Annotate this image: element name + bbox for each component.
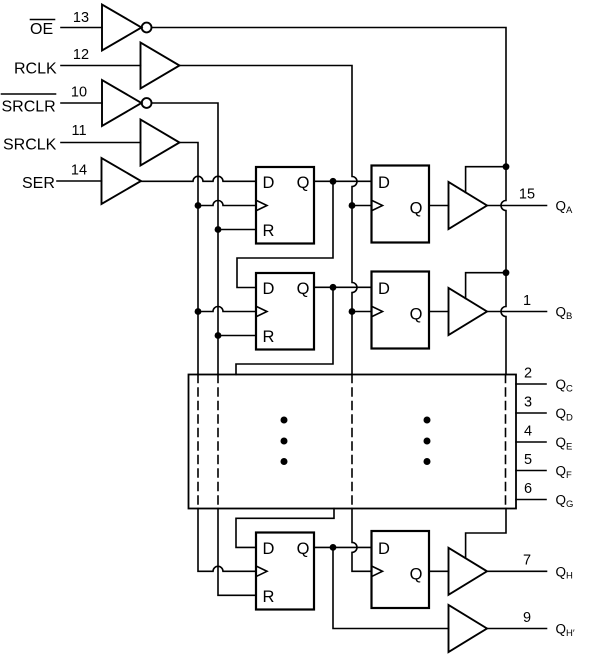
svg-text:9: 9 (523, 610, 531, 626)
wire Q2 to D of FF2B (314, 284, 372, 291)
svg-text:2: 2 (524, 366, 532, 382)
svg-text:H: H (566, 571, 573, 582)
buffer U2 (RCLK) (141, 43, 180, 89)
wire Q1 to D of FF2A (314, 178, 372, 185)
svg-text:11: 11 (71, 123, 86, 139)
svg-text:SRCLR: SRCLR (2, 99, 56, 116)
svg-text:Q: Q (556, 464, 567, 479)
wire OE enable branch B (466, 269, 510, 298)
wire R branch row B (215, 332, 256, 339)
dashed bus RCLK through box (351, 375, 353, 509)
wire QD output pin 3 (516, 412, 546, 414)
wire QE output pin 4 (516, 441, 546, 443)
label QA (556, 199, 574, 216)
label QH (556, 564, 574, 581)
svg-text:F: F (566, 470, 572, 481)
svg-text:SER: SER (22, 175, 55, 192)
wire Q latch H to buffer (429, 570, 449, 572)
wire Q of FF1H to D of FF2H (314, 544, 372, 551)
wire SER to D of FF A with hops (141, 176, 256, 181)
wire QC output pin 2 (516, 383, 546, 385)
wire R branch row A (215, 226, 256, 233)
flip-flop FF2B (output latch B) (372, 272, 430, 349)
svg-text:D: D (378, 280, 390, 298)
wire clock branch row B with hop (195, 307, 256, 315)
svg-text:D: D (378, 174, 390, 192)
wire RCLK net below box to bottom clock (352, 509, 372, 572)
inverter U1 (OE) (102, 5, 152, 51)
wire QA output (487, 205, 547, 207)
svg-text:B: B (566, 311, 572, 322)
svg-text:C: C (566, 383, 573, 394)
buffer U9 (QH' serial output) (449, 605, 488, 652)
svg-text:Q: Q (410, 200, 423, 218)
svg-text:H′: H′ (566, 628, 575, 639)
wire chain A to B (237, 181, 333, 287)
svg-text:R: R (263, 588, 275, 606)
dashed bus OE through box (505, 375, 507, 509)
svg-text:Q: Q (556, 199, 567, 214)
inverter U3 (SRCLR) (102, 80, 152, 126)
svg-text:Q: Q (556, 493, 567, 508)
svg-text:7: 7 (523, 552, 531, 568)
svg-text:E: E (566, 441, 572, 452)
buffer U6 (QA output) (449, 182, 488, 229)
svg-text:Q: Q (410, 306, 423, 324)
wire chain H to QH' buffer (333, 547, 449, 628)
wire OE net horizontal + vertical with hops (152, 28, 507, 375)
buffer U5 (SER) (102, 158, 142, 204)
svg-text:6: 6 (524, 481, 532, 497)
svg-text:Q: Q (556, 406, 567, 421)
svg-text:Q: Q (556, 377, 567, 392)
buffer U8 (QH output) (449, 548, 488, 595)
wire OE net below box (466, 509, 506, 559)
wire Q latch B to buffer (429, 311, 449, 313)
dashed bus SRCLK through box (197, 375, 199, 509)
svg-text:14: 14 (71, 163, 87, 179)
repeated stages box (C-G) (189, 375, 517, 509)
svg-text:13: 13 (73, 10, 89, 26)
input label SRCLR pin 10 (2, 85, 103, 116)
svg-text:A: A (566, 205, 573, 216)
svg-text:3: 3 (524, 395, 532, 411)
wire QH' output (487, 628, 547, 630)
wire SRCLK net horizontal + vertical (180, 143, 199, 375)
svg-text:Q: Q (556, 435, 567, 450)
svg-text:Q: Q (297, 540, 310, 558)
buffer U7 (QB output) (449, 288, 488, 335)
svg-text:D: D (263, 540, 275, 558)
svg-text:G: G (566, 499, 573, 510)
svg-text:Q: Q (297, 174, 310, 192)
wire chain from box into D of FF1H (236, 509, 334, 548)
svg-text:Q: Q (410, 566, 423, 584)
label QH' (556, 622, 575, 639)
wire QH output (487, 570, 547, 572)
wire SRCLK net below box to bottom clock with hop (198, 509, 256, 572)
svg-text:5: 5 (524, 452, 532, 468)
svg-text:D: D (263, 280, 275, 298)
svg-text:Q: Q (556, 305, 567, 320)
svg-text:12: 12 (73, 47, 89, 63)
wire OE enable branch A (466, 163, 510, 192)
label QB (556, 305, 573, 322)
wire QF output pin 5 (516, 470, 546, 472)
flip-flop FF1H (shift stage H) (256, 533, 314, 610)
ellipsis dots left column (281, 417, 288, 466)
svg-text:15: 15 (519, 187, 535, 203)
dashed bus SRCLR through box (217, 375, 219, 509)
svg-text:SRCLK: SRCLK (3, 137, 57, 154)
input label SRCLK pin 11 (3, 123, 141, 154)
wire RCLK branch row A (349, 202, 372, 209)
wire SRCLR net horizontal + vertical (152, 103, 219, 375)
wire chain B into dashed box (236, 287, 333, 374)
wire SRCLR net below box to bottom R (218, 509, 256, 596)
flip-flop FF2H (output latch H) (372, 531, 430, 608)
svg-text:D: D (263, 174, 275, 192)
svg-text:Q: Q (556, 622, 567, 637)
wire RCLK net horizontal + vertical with hops (180, 66, 358, 375)
wire QG output pin 6 (516, 499, 546, 501)
svg-text:RCLK: RCLK (14, 61, 57, 78)
wire Q latch A to buffer (429, 205, 449, 207)
svg-text:R: R (263, 222, 275, 240)
flip-flop FF1A (shift stage A) (256, 167, 314, 244)
input label SER pin 14 (22, 163, 102, 193)
ellipsis dots right column (424, 417, 431, 466)
svg-text:R: R (263, 328, 275, 346)
svg-text:1: 1 (523, 293, 531, 309)
svg-text:OE: OE (30, 21, 53, 38)
wire QB output (487, 311, 547, 313)
wire RCLK branch row B (349, 308, 372, 315)
svg-text:Q: Q (297, 280, 310, 298)
flip-flop FF1B (shift stage B) (256, 273, 314, 350)
svg-text:10: 10 (71, 85, 87, 101)
flip-flop FF2A (output latch A) (372, 166, 430, 243)
svg-text:D: D (378, 540, 390, 558)
wire clock branch row A with hop (195, 201, 256, 209)
input label RCLK pin 12 (14, 47, 141, 78)
svg-text:Q: Q (556, 564, 567, 579)
svg-text:D: D (566, 412, 573, 423)
svg-text:4: 4 (524, 424, 532, 440)
buffer U4 (SRCLK) (141, 120, 180, 166)
input label OE pin 13 (30, 10, 102, 38)
